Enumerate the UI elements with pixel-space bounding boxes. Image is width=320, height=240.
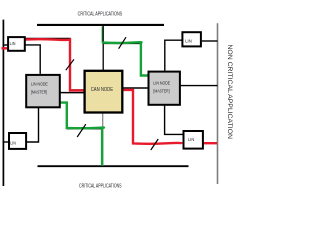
- node: LIN box top-right: [182, 32, 201, 46]
- bus: LIN left vertical: [2, 20, 4, 186]
- svg-text:[MASTER]: [MASTER]: [153, 89, 169, 94]
- svg-text:LIN: LIN: [188, 137, 195, 143]
- wire: LIN TL to gray node left (down at x=40): [26, 45, 41, 74]
- break slash on red vertical: [66, 59, 74, 70]
- svg-text:NON CRITICAL APPLICATION: NON CRITICAL APPLICATION: [226, 44, 232, 139]
- node: LIN NODE MASTER left (gray): [26, 75, 60, 107]
- break slash on green bottom: [77, 124, 86, 137]
- wire: black under green, gray node left to bottom bus: [61, 103, 103, 129]
- wire: red LIN BR to right bus: [203, 142, 217, 144]
- wire: red CAN right down to LIN BR: [123, 90, 183, 144]
- bus: CRITICAL APPLICATIONS top: [37, 24, 164, 26]
- bus: NON CRITICAL right vertical: [217, 23, 219, 184]
- wire: gray node right bottom to LIN BR: [165, 106, 183, 135]
- svg-text:LIN: LIN: [185, 39, 192, 45]
- wire: black under green, CAN top branch to gray node right: [103, 44, 148, 76]
- wire: gray node right to right bus: [181, 85, 218, 87]
- wire: CAN right to gray node right: [123, 87, 148, 89]
- node: LIN NODE MASTER right (gray): [149, 72, 180, 105]
- wire: CAN bottom to bottom bus (gray): [102, 113, 104, 166]
- svg-text:[MASTER]: [MASTER]: [31, 89, 47, 94]
- wire: red stub left bus to LIN TL: [2, 47, 8, 49]
- wire: green top branch CAN to gray node right: [102, 42, 148, 75]
- node: LIN box bottom-left: [9, 133, 26, 149]
- wire: top bus to CAN top: [102, 25, 104, 70]
- wire: left bus to LIN BL: [3, 141, 9, 143]
- wire: left bus to LIN TL: [3, 44, 8, 46]
- node: LIN box bottom-right: [184, 131, 203, 149]
- svg-text:LIN: LIN: [10, 41, 16, 47]
- wire: red LIN TL to CAN left: [26, 39, 85, 90]
- node: CAN NODE (yellow): [85, 71, 123, 113]
- break slash on green top: [119, 37, 126, 49]
- wire: gray node left bottom to LIN BL: [27, 108, 39, 142]
- wire: gray node left to CAN node: [61, 92, 85, 94]
- node: LIN box top-left: [8, 37, 25, 51]
- svg-text:CRITICAL APPLICATIONS: CRITICAL APPLICATIONS: [79, 184, 122, 190]
- svg-text:LIN NODE: LIN NODE: [153, 81, 170, 86]
- svg-text:CAN NODE: CAN NODE: [91, 87, 114, 93]
- wire: green overlay on CAN top wire: [102, 27, 104, 43]
- wire: black under red, LIN TL top to CAN left: [26, 38, 85, 90]
- wire: green gray node left to bottom bus: [61, 103, 104, 166]
- bus: CRITICAL APPLICATIONS bottom: [38, 165, 189, 167]
- wire: LIN TR left to gray node right top: [165, 40, 182, 70]
- break slash on red bottom: [151, 139, 158, 150]
- svg-text:CRITICAL APPLICATIONS: CRITICAL APPLICATIONS: [78, 11, 123, 17]
- svg-text:LIN NODE: LIN NODE: [31, 82, 48, 87]
- wire: LIN TR right to right bus: [202, 40, 218, 42]
- svg-text:LIN: LIN: [10, 141, 16, 147]
